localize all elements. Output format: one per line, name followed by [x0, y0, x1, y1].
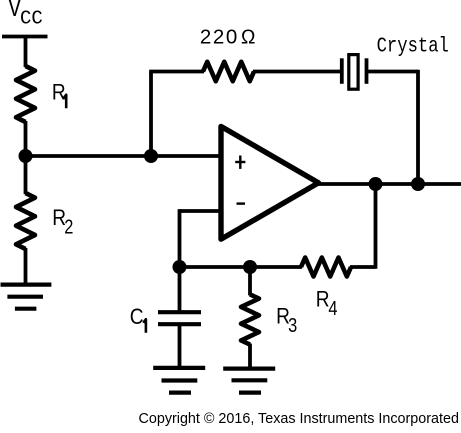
- wire node A down to R2: [24, 156, 28, 194]
- wire riser up to output: [374, 184, 378, 269]
- resistor R4: [301, 258, 351, 277]
- wire node C down to R3: [248, 267, 252, 295]
- wire op-amp minus input horizontal: [180, 209, 222, 213]
- wire 220 ohm to crystal: [253, 70, 341, 74]
- wire node B to node C and R4: [180, 265, 303, 269]
- wire R3 to ground: [248, 344, 252, 369]
- resistor 220 ohm: [203, 62, 254, 82]
- label 220 ohm: [200, 25, 239, 48]
- wire node B down to C1: [178, 267, 182, 311]
- capacitor C1 bottom plate: [158, 322, 201, 326]
- wire minus input down to node B: [178, 209, 182, 267]
- svg-text:220: 220: [200, 25, 239, 48]
- label Crystal: [377, 34, 449, 58]
- wire R4 to riser: [350, 265, 376, 269]
- node A junction dot: [19, 149, 33, 163]
- crystal body: [349, 55, 358, 90]
- label R2: [52, 206, 73, 238]
- ground under R2: [1, 285, 52, 309]
- wire op-amp output: [317, 182, 461, 186]
- label R4: [316, 287, 338, 319]
- junction dot output crystal branch: [411, 177, 425, 191]
- wire crystal branch down to output: [416, 70, 420, 184]
- wire node A to op-amp plus input: [26, 154, 222, 158]
- crystal left electrode: [340, 58, 344, 84]
- svg-text:Crystal: Crystal: [377, 34, 449, 58]
- svg-text:Ω: Ω: [241, 26, 255, 49]
- svg-text:4: 4: [328, 297, 337, 320]
- junction dot feedback tap: [144, 149, 158, 163]
- ground under C1: [153, 368, 205, 393]
- svg-text:CC: CC: [20, 7, 43, 29]
- node B junction dot: [173, 260, 187, 274]
- junction dot output R4 branch: [369, 177, 383, 191]
- wire R1 bottom to node A: [24, 121, 28, 157]
- VCC power rail bar: [2, 35, 48, 39]
- op-amp U1: [221, 126, 319, 239]
- svg-text:2: 2: [64, 215, 73, 238]
- wire R2 to ground: [24, 248, 28, 285]
- op-amp plus sign: [235, 156, 245, 169]
- wire VCC rail to R1 top: [24, 37, 28, 68]
- svg-text:R: R: [316, 287, 330, 312]
- svg-text:C: C: [130, 305, 144, 330]
- svg-text:3: 3: [288, 313, 297, 336]
- resistor R1: [16, 66, 35, 122]
- crystal right electrode: [365, 58, 369, 84]
- wire crystal to right corner: [368, 70, 418, 74]
- svg-text:Copyright © 2016, Texas Instru: Copyright © 2016, Texas Instruments Inco…: [139, 411, 459, 427]
- ground under R3: [223, 369, 275, 393]
- op-amp minus sign: [237, 202, 246, 204]
- resistor R2: [16, 193, 35, 249]
- svg-text:R: R: [52, 80, 66, 105]
- node C junction dot: [243, 260, 257, 274]
- resistor R3: [241, 294, 259, 344]
- label R3: [276, 304, 297, 336]
- label C1: [130, 305, 146, 333]
- capacitor C1 top plate: [158, 310, 201, 314]
- VCC label: [9, 0, 43, 29]
- label R1: [52, 80, 66, 108]
- wire feedback tap up: [149, 72, 153, 157]
- wire C1 to ground: [178, 324, 182, 368]
- wire corner to 220 ohm resistor: [149, 70, 204, 74]
